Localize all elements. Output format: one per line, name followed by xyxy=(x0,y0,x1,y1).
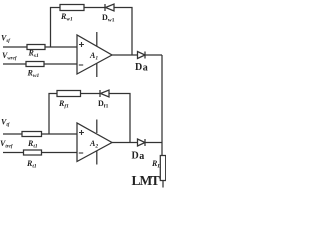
svg-text:Vtf: Vtf xyxy=(1,118,11,129)
svg-text:Rw1: Rw1 xyxy=(27,69,40,80)
svg-text:Df1: Df1 xyxy=(98,99,109,110)
svg-text:Vwref: Vwref xyxy=(2,51,18,62)
svg-text:A2: A2 xyxy=(89,139,98,150)
svg-text:Rw1: Rw1 xyxy=(60,12,73,23)
svg-text:Dw1: Dw1 xyxy=(102,13,115,24)
svg-text:Da: Da xyxy=(132,151,145,163)
svg-text:A1: A1 xyxy=(89,51,98,62)
svg-text:Rf1: Rf1 xyxy=(58,99,69,110)
svg-text:LMT: LMT xyxy=(132,173,160,188)
svg-text:Vtref: Vtref xyxy=(0,139,14,150)
svg-text:Rt1: Rt1 xyxy=(26,159,37,170)
svg-text:Vsf: Vsf xyxy=(1,34,11,45)
svg-text:Da: Da xyxy=(135,62,148,74)
svg-text:Rt1: Rt1 xyxy=(27,139,38,150)
